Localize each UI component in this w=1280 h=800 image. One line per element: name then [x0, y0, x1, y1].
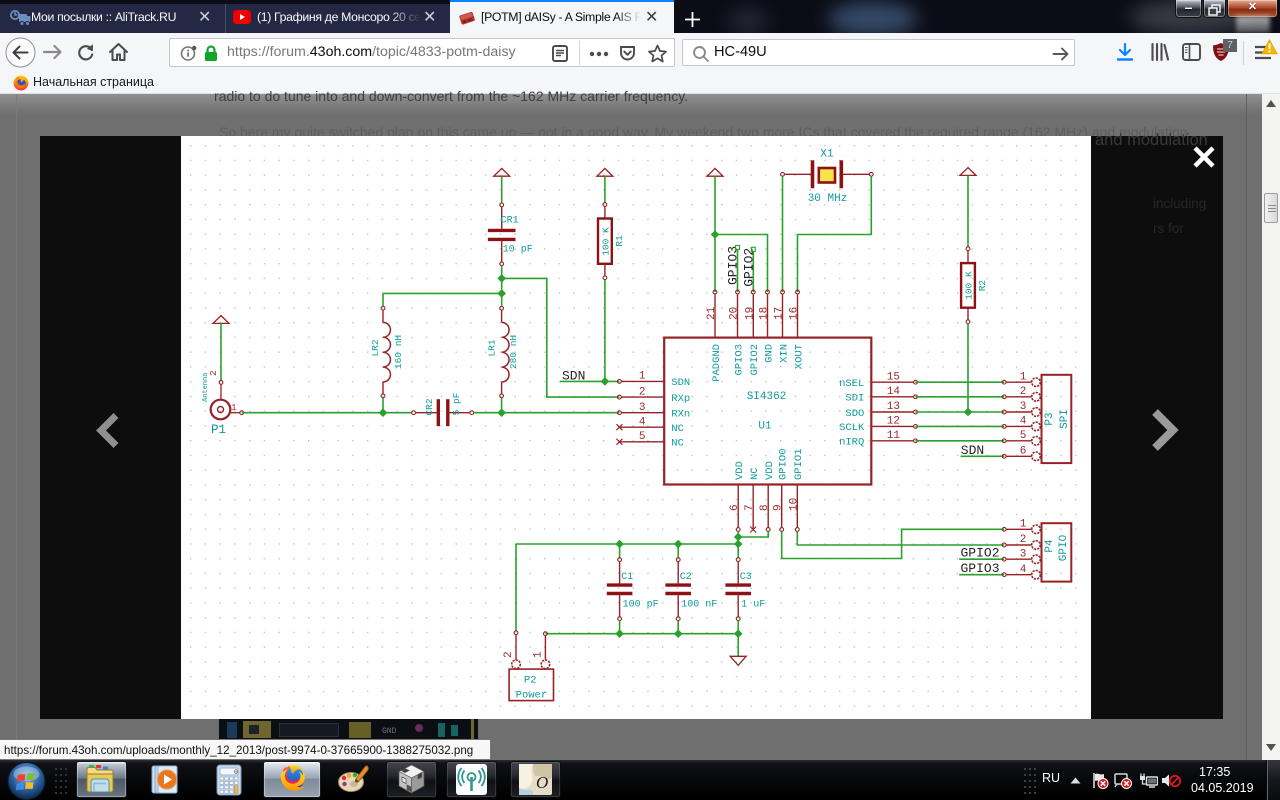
U1 pin 9 GPIO0	[773, 448, 790, 531]
svg-text:C1: C1	[621, 572, 633, 583]
wire R2 to SDO net	[967, 324, 969, 412]
svg-text:NC: NC	[749, 467, 761, 480]
U1 pin 3 RXn	[618, 402, 691, 421]
svg-text:R2: R2	[977, 280, 988, 292]
tray icon: flag with red x	[1091, 772, 1109, 789]
wire U1 pin 13 to P3 pin 3	[916, 411, 1005, 413]
U1 pin 11 nIRQ	[839, 430, 917, 449]
favicon tab2: youtube	[233, 10, 251, 24]
capacitor C1 100 pF	[607, 558, 659, 621]
svg-text:VDD: VDD	[734, 461, 746, 480]
U1 pin 6 VDD	[729, 461, 746, 531]
svg-text:4: 4	[639, 416, 646, 428]
U1 pin 14 SDI	[845, 386, 917, 405]
svg-text:GPIO3: GPIO3	[733, 344, 745, 376]
tray grip	[1024, 768, 1036, 794]
svg-text:20: 20	[729, 307, 741, 320]
svg-text:2: 2	[503, 651, 515, 658]
junction SDN/R1	[601, 377, 610, 386]
svg-text:SCLK: SCLK	[839, 422, 865, 434]
prev arrow	[94, 412, 121, 449]
wire VDD rail	[516, 543, 738, 545]
start orb	[6, 762, 47, 800]
wire U1 pin 14 to P3 pin 2	[916, 396, 1005, 398]
wire VDD rail to C2	[677, 544, 679, 558]
svg-text:100 pF: 100 pF	[623, 599, 659, 610]
junction PADGND/GND	[711, 230, 720, 239]
back circle	[5, 37, 36, 68]
capacitor CR1 10 pF	[488, 203, 533, 266]
scrollbar	[1262, 94, 1280, 760]
svg-text:100 nF: 100 nF	[681, 599, 717, 610]
wire VDD rail to P2 pin2	[515, 544, 517, 631]
wire X1 left to pin17 XIN	[782, 176, 784, 292]
svg-text:RXn: RXn	[671, 409, 690, 421]
svg-text:10: 10	[788, 498, 800, 511]
wire CR1 to IC pin2 RXp	[502, 278, 620, 397]
wire U1 pin10 GPIO1 to P4 pin2	[797, 531, 1004, 545]
ground (above R1)	[597, 168, 613, 176]
library	[1150, 42, 1169, 62]
svg-text:30 MHz: 30 MHz	[808, 193, 848, 205]
calculator icon	[213, 764, 245, 796]
hamburger	[1254, 45, 1272, 60]
wifi button	[446, 761, 497, 798]
svg-text:1: 1	[1020, 519, 1027, 531]
svg-text:GND: GND	[763, 344, 775, 363]
junction rail/C2	[674, 629, 683, 638]
tray icon: speaker muted	[1161, 772, 1181, 789]
U1 pin 17 XIN	[774, 290, 791, 363]
svg-text:5: 5	[639, 431, 646, 443]
wire SDN label to pin1	[560, 380, 619, 382]
svg-text:1: 1	[639, 371, 646, 383]
ground (above R2)	[960, 168, 976, 176]
U1 pin 8 VDD	[759, 461, 776, 531]
wire GPIO2 to pin19	[752, 251, 754, 292]
svg-text:8: 8	[759, 504, 771, 511]
svg-text:SDI: SDI	[845, 393, 864, 405]
U1 pin 1 SDN	[618, 371, 691, 390]
ground (below C3)	[730, 656, 746, 665]
sidebar	[1182, 43, 1201, 61]
U1 pin 21 PADGND	[706, 290, 723, 382]
svg-text:RXp: RXp	[671, 393, 690, 405]
wire U1 pin9 GPIO0 to P4 pin1	[782, 529, 1005, 558]
ground (above P1)	[213, 316, 229, 324]
svg-text:0: 0	[234, 769, 238, 776]
U1 pin 16 XOUT	[789, 290, 806, 369]
wire R1 to SDN net	[604, 280, 606, 382]
svg-text:160 nH: 160 nH	[393, 335, 404, 369]
svg-text:2: 2	[1020, 534, 1027, 546]
wire ground to R1	[604, 176, 606, 202]
wire U1 pin 15 to P3 pin 1	[916, 381, 1005, 383]
wire GPIO2 to P4 pin3	[959, 558, 1004, 560]
paint icon	[337, 764, 371, 796]
svg-text:SDN: SDN	[671, 377, 690, 389]
junction LR2 bottom	[379, 408, 388, 417]
svg-text:16: 16	[789, 307, 801, 320]
wire LR2 top stub	[382, 293, 384, 306]
svg-text:7: 7	[744, 504, 756, 511]
U1 pin 2 RXp	[618, 386, 691, 405]
U1 pin 15 nSEL	[839, 371, 917, 390]
inductor LR1	[487, 306, 520, 397]
inductor LR2	[370, 306, 404, 397]
junction LR1 bottom	[497, 408, 506, 417]
svg-text:GPIO0: GPIO0	[778, 448, 790, 480]
junction VDD/C1	[615, 540, 624, 549]
close X	[1192, 145, 1216, 169]
wire U1 pin 11 to P3 pin 5	[916, 440, 1005, 442]
svg-text:GPIO2: GPIO2	[749, 344, 761, 376]
connector P2 Power	[503, 631, 554, 702]
wmp icon	[149, 765, 182, 795]
wire LR2 top to LR1 top	[383, 292, 502, 294]
svg-text:100 K: 100 K	[964, 271, 975, 300]
U1 pin 18 GND	[759, 290, 776, 363]
junction pin6/pin8	[734, 533, 743, 542]
junction VDD/C2	[674, 540, 683, 549]
svg-text:9: 9	[773, 504, 785, 511]
forward	[43, 43, 63, 61]
svg-text:U1: U1	[758, 421, 772, 433]
svg-text:Power: Power	[516, 690, 548, 702]
wire C3 to ground	[737, 634, 739, 657]
faint vertical page edges	[16, 94, 17, 760]
svg-text:15: 15	[887, 371, 900, 383]
svg-text:19: 19	[744, 307, 756, 320]
svg-text:21: 21	[706, 306, 718, 320]
svg-text:5: 5	[1020, 430, 1027, 442]
U1 pin 19 GPIO2	[744, 290, 761, 375]
warning triangle	[1261, 39, 1278, 55]
pocket	[619, 45, 636, 62]
svg-text:3: 3	[1020, 401, 1027, 413]
svg-text:17: 17	[774, 307, 786, 320]
cube button	[386, 761, 437, 798]
svg-text:11: 11	[887, 430, 901, 442]
next arrow	[1149, 408, 1181, 452]
svg-text:LR2: LR2	[370, 339, 381, 356]
wire U1 pin 12 to P3 pin 4	[916, 425, 1005, 427]
capacitor CR2 5 pF	[412, 392, 474, 426]
wire X1 right to pin16 XOUT	[798, 176, 872, 292]
svg-text:X1: X1	[820, 149, 834, 161]
firefox button	[263, 761, 321, 798]
capacitor C3 1 uF	[725, 558, 765, 621]
svg-text:280 nH: 280 nH	[508, 335, 519, 369]
svg-text:NC: NC	[671, 423, 684, 435]
svg-text:PADGND: PADGND	[711, 344, 723, 382]
wire C1 to bottom rail	[619, 621, 621, 634]
svg-text:GPIO1: GPIO1	[793, 448, 805, 480]
U1 pin 4 NC	[616, 416, 684, 435]
U1 pin 13 SDO	[845, 401, 917, 420]
svg-text:3: 3	[639, 402, 646, 414]
U1 pin 7 NC	[744, 467, 761, 532]
wire U1 pin6 VDD down	[737, 531, 739, 544]
ground (above U1 PADGND)	[707, 168, 723, 176]
grip	[55, 768, 67, 794]
U1 pin 10 GPIO1	[788, 448, 805, 531]
wire GPIO3 to P4 pin4	[959, 574, 1004, 576]
svg-text:XIN: XIN	[778, 344, 790, 363]
svg-text:nSEL: nSEL	[839, 378, 864, 390]
explorer button	[76, 761, 127, 798]
svg-text:C2: C2	[680, 572, 692, 583]
wire branch to pin18 GND	[715, 235, 768, 293]
svg-text:6: 6	[729, 504, 741, 511]
U1 pin 5 NC	[616, 431, 684, 450]
svg-text:1: 1	[231, 402, 237, 413]
wire C2 to bottom rail	[677, 621, 679, 634]
svg-text:O: O	[536, 773, 548, 792]
wire ground to CR1	[501, 176, 503, 203]
junction CR1/RXp	[497, 274, 506, 283]
svg-text:SDO: SDO	[845, 408, 864, 420]
svg-text:2: 2	[639, 386, 646, 398]
wire RF line P1 to CR2	[242, 412, 412, 414]
svg-text:P3: P3	[1044, 412, 1056, 425]
U1 pin 20 GPIO3	[729, 290, 746, 375]
svg-text:1: 1	[1020, 371, 1027, 383]
ozi button	[510, 761, 561, 798]
show desktop	[1266, 760, 1267, 800]
svg-text:3: 3	[1020, 548, 1027, 560]
wire ground to R2	[967, 175, 969, 246]
svg-text:18: 18	[759, 307, 771, 320]
svg-text:P4: P4	[1044, 539, 1056, 553]
svg-text:SI4362: SI4362	[747, 391, 787, 403]
svg-text:CR1: CR1	[501, 216, 519, 227]
crystal X1 30 MHz	[781, 149, 874, 206]
svg-text:10 pF: 10 pF	[503, 244, 533, 255]
svg-text:2: 2	[1020, 386, 1027, 398]
wire C3 to bottom rail	[737, 621, 739, 634]
svg-text:VDD: VDD	[764, 461, 776, 480]
svg-text:4: 4	[1020, 416, 1027, 428]
junction VDD/C3	[734, 540, 743, 549]
wire CR1 bottom	[501, 266, 503, 306]
tray icon: network	[1139, 772, 1158, 789]
svg-text:P2: P2	[524, 675, 537, 687]
svg-text:CR2: CR2	[424, 398, 435, 415]
reload	[76, 43, 95, 62]
junction rail/C1	[615, 629, 624, 638]
svg-text:Antenna: Antenna	[202, 373, 210, 402]
svg-text:nIRQ: nIRQ	[839, 437, 864, 449]
connector P4 GPIO	[1006, 519, 1071, 582]
tray icon: gear with red x	[1114, 772, 1132, 789]
star	[648, 44, 667, 63]
svg-text:1 uF: 1 uF	[741, 599, 765, 610]
window buttons	[1175, 0, 1202, 18]
junction rail/C3	[734, 629, 743, 638]
svg-text:NC: NC	[671, 438, 684, 450]
wire GPIO3 to pin20	[737, 250, 739, 293]
junction LR2-top net	[497, 289, 506, 298]
IC U1 SI4362	[664, 338, 871, 485]
svg-text:13: 13	[887, 401, 900, 413]
svg-text:SPI: SPI	[1059, 409, 1071, 429]
capacitor C2 100 nF	[665, 558, 717, 621]
svg-text:P1: P1	[211, 423, 226, 437]
favicon tab3: red pcb	[458, 10, 476, 26]
svg-text:12: 12	[887, 416, 900, 428]
reader icon	[552, 45, 568, 62]
svg-text:100 K: 100 K	[601, 227, 612, 256]
resistor R1 100K	[598, 203, 625, 280]
wire bottom rail	[545, 633, 738, 635]
svg-text:XOUT: XOUT	[793, 344, 805, 369]
wire CR2 to IC pin3	[473, 412, 619, 414]
ground (above CR1)	[494, 168, 510, 176]
svg-text:1: 1	[532, 651, 544, 658]
wire VDD rail to C1	[619, 544, 621, 558]
svg-text:GPIO: GPIO	[1058, 534, 1070, 561]
dots	[589, 51, 609, 57]
PCB image fragment bottom	[219, 719, 478, 742]
wire P1 pin2 to ground	[220, 323, 222, 380]
wire ground to pin21	[714, 176, 716, 292]
junction R2/SDO	[964, 408, 973, 417]
wire U1 pin8 VDD down-left	[738, 531, 768, 537]
green lock	[203, 45, 219, 62]
svg-text:6: 6	[1020, 446, 1027, 458]
wire LR2 bottom stub	[382, 398, 384, 413]
ublock	[1212, 42, 1230, 62]
download	[1116, 43, 1134, 62]
resistor R2 100K	[961, 247, 988, 324]
svg-text:C3: C3	[740, 572, 752, 583]
wire LR1 bottom stub	[501, 398, 503, 413]
favicon tab1: truck	[9, 9, 31, 27]
svg-text:4: 4	[1020, 564, 1027, 576]
svg-text:5 pF: 5 pF	[451, 392, 462, 415]
svg-text:R1: R1	[614, 235, 625, 247]
info icon	[180, 45, 197, 62]
wire SDN to P3 pin6	[961, 455, 1005, 457]
connector P3 SPI	[1006, 371, 1071, 463]
svg-text:14: 14	[887, 386, 901, 398]
home	[108, 42, 129, 62]
U1 pin 12 SCLK	[839, 416, 917, 435]
svg-text:LR1: LR1	[487, 339, 498, 356]
connector P1 Antenna	[202, 370, 244, 437]
wire VDD rail to C3	[737, 544, 739, 558]
